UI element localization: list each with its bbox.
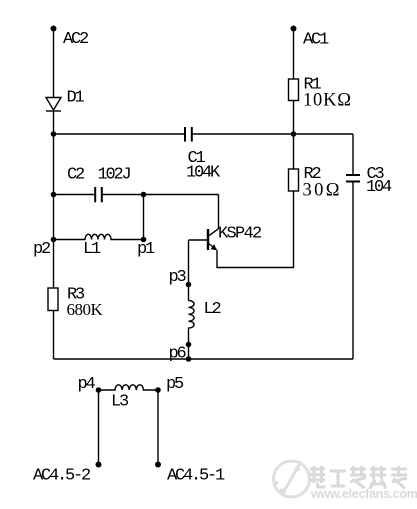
svg-text:L2: L2	[204, 300, 221, 319]
svg-text:L1: L1	[83, 240, 101, 259]
node junction top-left	[51, 131, 57, 137]
svg-text:10KΩ: 10KΩ	[303, 91, 352, 111]
svg-text:p2: p2	[33, 240, 50, 259]
wire bottom row	[54, 358, 354, 360]
svg-text:www.elecfans.com: www.elecfans.com	[310, 487, 417, 501]
wire	[54, 194, 96, 196]
wire right rail top	[352, 134, 354, 175]
node p5	[155, 387, 161, 393]
capacitor C2	[95, 187, 102, 202]
svg-text:AC4.5-1: AC4.5-1	[167, 467, 225, 486]
svg-text:104: 104	[366, 178, 392, 197]
wire	[98, 390, 100, 465]
wire	[293, 101, 295, 170]
node AC4.5-1 terminal	[155, 462, 161, 468]
wire	[192, 133, 353, 135]
resistor R3	[48, 288, 58, 311]
inductor L2	[189, 301, 195, 360]
svg-text:p5: p5	[166, 375, 184, 394]
node AC2	[51, 26, 57, 32]
svg-text:p4: p4	[78, 375, 96, 394]
capacitor C1	[185, 127, 192, 142]
wire	[102, 194, 219, 196]
wire	[157, 390, 159, 465]
node junction C2 left	[51, 192, 57, 198]
node p4	[96, 387, 102, 393]
wire p1 vertical	[143, 195, 145, 240]
wire left rail	[53, 195, 55, 289]
svg-text:AC1: AC1	[303, 31, 329, 50]
node p6	[186, 356, 192, 362]
resistor R2	[289, 169, 299, 191]
wire	[54, 133, 186, 135]
node L2 bottom	[186, 342, 192, 348]
watermark brand strokes	[310, 466, 407, 489]
wire	[293, 29, 295, 80]
svg-text:104K: 104K	[186, 164, 221, 183]
node p3	[186, 282, 192, 288]
svg-text:p1: p1	[137, 240, 155, 259]
svg-text:p3: p3	[169, 268, 187, 287]
svg-text:102J: 102J	[98, 166, 131, 185]
svg-text:680K: 680K	[67, 300, 104, 319]
wire base	[189, 239, 208, 241]
svg-text:D1: D1	[67, 89, 85, 108]
capacitor C3	[346, 175, 360, 182]
node AC4.5-2 terminal	[96, 462, 102, 468]
node p1	[141, 237, 147, 243]
wire base to p3	[188, 240, 190, 301]
wire	[53, 111, 55, 195]
svg-text:KSP42: KSP42	[218, 225, 261, 244]
wire	[53, 311, 55, 360]
inductor L3	[99, 385, 159, 390]
svg-text:AC2: AC2	[63, 30, 88, 49]
inductor L1	[54, 234, 144, 239]
resistor R1	[289, 79, 299, 101]
svg-text:p6: p6	[169, 345, 187, 364]
node junction C2 right	[141, 192, 147, 198]
node p2	[51, 237, 57, 243]
diode D1	[46, 98, 61, 112]
wire	[217, 191, 294, 268]
svg-text:AC4.5-2: AC4.5-2	[33, 467, 90, 486]
svg-text:30Ω: 30Ω	[303, 181, 342, 201]
wire right rail bottom	[352, 182, 354, 360]
svg-text:C2: C2	[67, 166, 84, 185]
node junction R1/R2	[291, 131, 297, 137]
watermark logo	[274, 461, 310, 497]
wire	[53, 29, 55, 98]
wire collector drop	[218, 195, 220, 230]
transistor Q1 KSP42	[208, 229, 219, 251]
node AC1	[291, 26, 297, 32]
svg-text:L3: L3	[111, 393, 129, 412]
